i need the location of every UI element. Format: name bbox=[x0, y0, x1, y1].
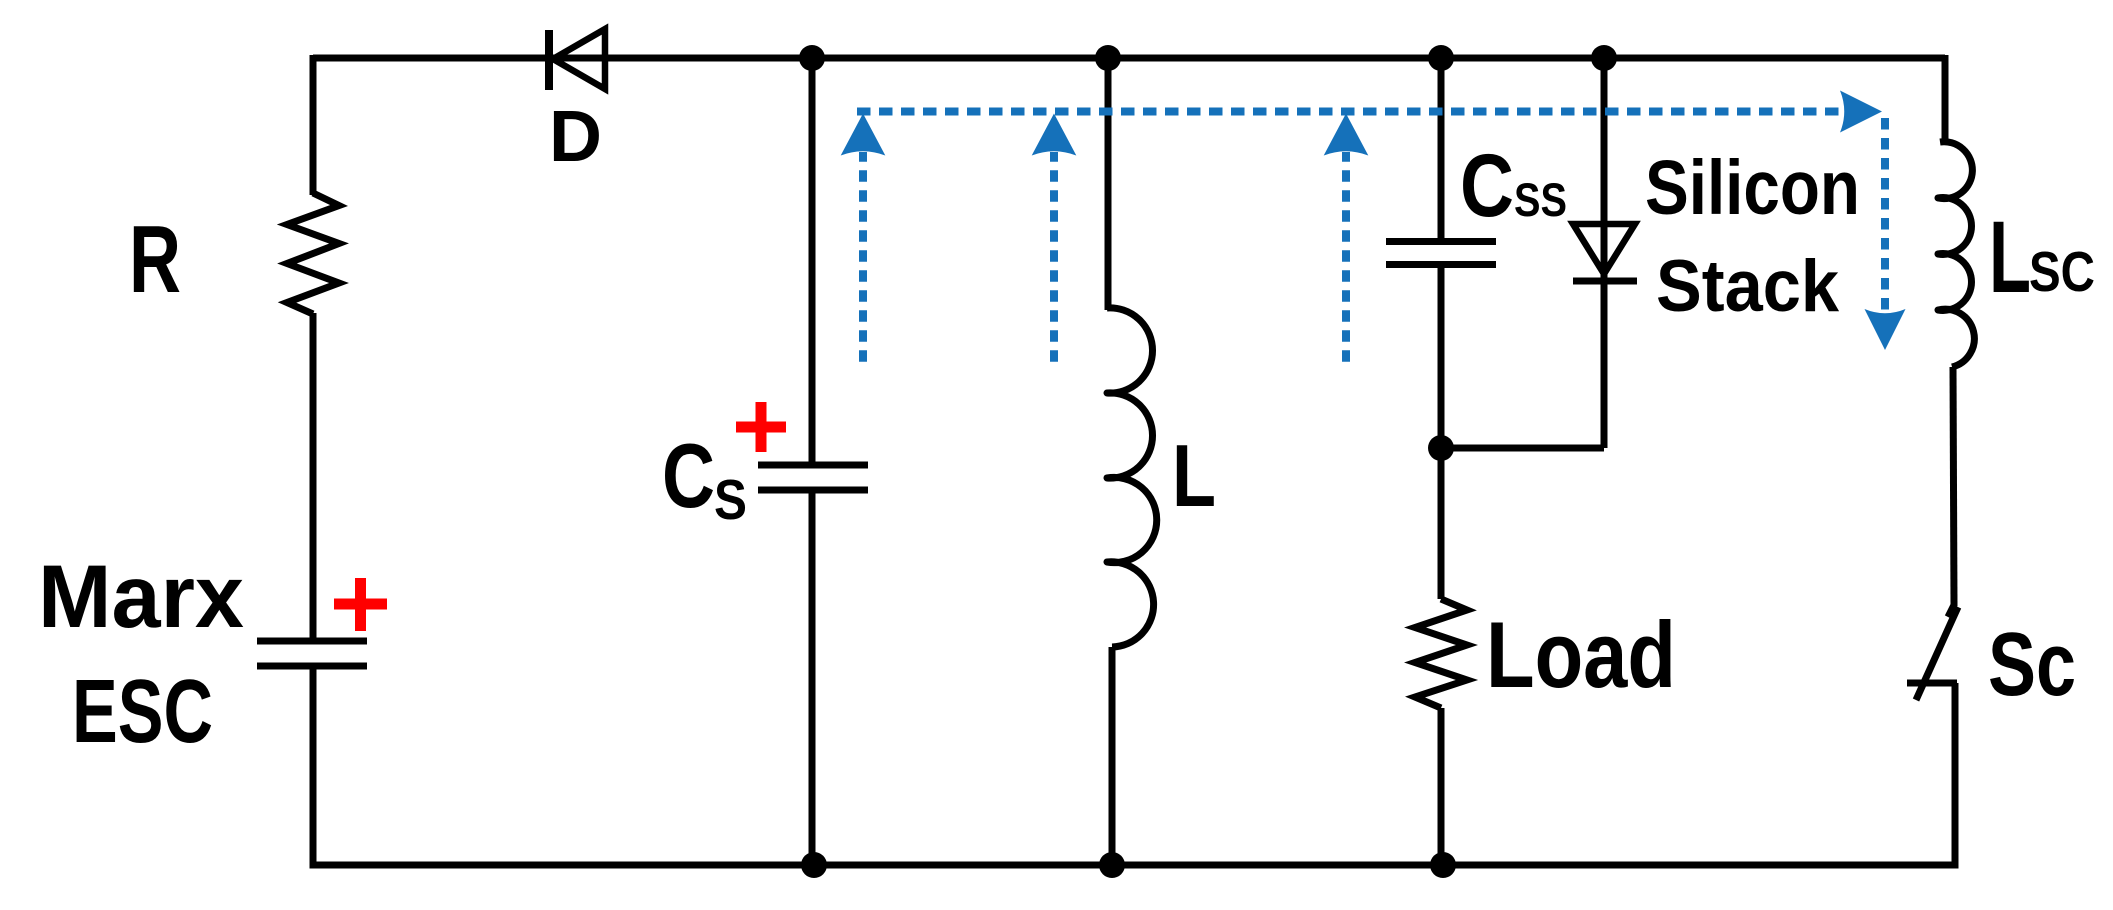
resistor R bbox=[287, 193, 339, 314]
wire right branch middle bbox=[1953, 367, 1954, 605]
svg-text:L: L bbox=[1989, 200, 2031, 314]
svg-text:Stack: Stack bbox=[1656, 246, 1839, 327]
wire current path dashed arrow shaft 3 bbox=[1342, 152, 1350, 362]
node junction dot top Cs bbox=[799, 45, 825, 71]
capacitor Marx ESC plate bottom bbox=[257, 663, 367, 670]
diode D cathode bar bbox=[545, 30, 553, 90]
wire node A connector bbox=[1441, 445, 1604, 452]
capacitor Css plate top bbox=[1386, 238, 1496, 245]
switch Sc blade kink bbox=[1948, 601, 1954, 617]
polarity plus Marx bbox=[334, 599, 387, 610]
capacitor Cs plate top bbox=[758, 462, 868, 469]
node junction dot bottom Load bbox=[1430, 852, 1456, 878]
node junction dot top stack bbox=[1591, 45, 1617, 71]
diode D triangle bbox=[553, 29, 605, 89]
capacitor Cs plate bottom bbox=[758, 487, 868, 494]
svg-text:Sc: Sc bbox=[1988, 615, 2076, 715]
wire left branch upper bbox=[310, 55, 317, 195]
svg-text:SC: SC bbox=[2029, 240, 2095, 304]
wire current path dashed arrow shaft 2 bbox=[1050, 152, 1058, 362]
wire right branch lower bbox=[1952, 683, 1959, 869]
svg-text:Load: Load bbox=[1486, 602, 1676, 707]
wire silicon stack branch bbox=[1601, 58, 1608, 448]
arrowhead down bbox=[1865, 309, 1906, 350]
wire bottom bus bbox=[310, 862, 1958, 869]
wire L branch upper bbox=[1105, 58, 1112, 310]
arrowhead up 1 bbox=[841, 114, 886, 156]
node junction dot A bbox=[1428, 435, 1454, 461]
wire current path dashed arrow shaft 1 bbox=[859, 152, 867, 362]
switch Sc blade bbox=[1916, 607, 1958, 700]
arrowhead up 3 bbox=[1324, 114, 1369, 156]
svg-text:SS: SS bbox=[1514, 173, 1567, 226]
wire Css branch middle bbox=[1438, 265, 1445, 600]
arrowhead up 2 bbox=[1032, 114, 1077, 156]
svg-text:C: C bbox=[1460, 135, 1514, 235]
arrowhead right bbox=[1840, 91, 1882, 133]
wire left branch middle bbox=[310, 313, 317, 641]
wire top bus bbox=[313, 55, 1945, 62]
node junction dot top Css bbox=[1428, 45, 1454, 71]
svg-text:ESC: ESC bbox=[72, 662, 213, 762]
wire L branch lower bbox=[1109, 647, 1116, 865]
wire current path dashed horizontal bbox=[857, 108, 1843, 116]
svg-text:Marx: Marx bbox=[38, 546, 244, 646]
silicon stack diode triangle bbox=[1573, 224, 1635, 274]
svg-text:C: C bbox=[662, 426, 715, 527]
inductor Lsc coil bbox=[1938, 142, 1974, 367]
svg-text:D: D bbox=[549, 97, 602, 177]
silicon stack diode cathode bar bbox=[1573, 278, 1637, 285]
wire Load branch lower bbox=[1438, 708, 1445, 865]
wire right branch upper bbox=[1942, 55, 1949, 144]
wire current path dashed vertical right bbox=[1881, 118, 1889, 310]
node junction dot top L bbox=[1095, 45, 1121, 71]
wire Css branch upper bbox=[1438, 58, 1445, 242]
node junction dot bottom Cs bbox=[801, 852, 827, 878]
wire Cs branch lower bbox=[809, 490, 816, 865]
node junction dot bottom L bbox=[1099, 852, 1125, 878]
switch Sc contact tick bbox=[1907, 680, 1957, 687]
capacitor Marx ESC plate top bbox=[257, 638, 367, 645]
svg-text:Silicon: Silicon bbox=[1645, 145, 1860, 231]
wire left branch lower bbox=[310, 666, 317, 869]
svg-text:S: S bbox=[714, 468, 747, 532]
inductor L coil bbox=[1107, 308, 1157, 647]
polarity plus Cs bbox=[736, 422, 786, 433]
wire Cs branch upper bbox=[809, 58, 816, 465]
svg-text:R: R bbox=[129, 206, 181, 313]
capacitor Css plate bottom bbox=[1386, 261, 1496, 268]
resistor Load bbox=[1415, 599, 1467, 708]
svg-text:L: L bbox=[1172, 426, 1216, 525]
